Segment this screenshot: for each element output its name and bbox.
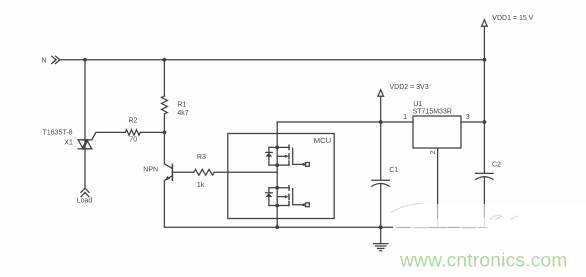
node junction cell top drain — [275, 146, 279, 150]
node N label — [42, 58, 47, 65]
svg-text:1k: 1k — [197, 182, 205, 189]
node junction cell bottom source — [275, 204, 279, 208]
wire R2 to node — [140, 131, 164, 133]
svg-text:4k7: 4k7 — [177, 110, 188, 117]
mosfet cell bottom: gate port square — [306, 203, 310, 207]
node N connector chevron — [52, 56, 60, 63]
regulator U1 box — [413, 116, 461, 148]
wire R1 bottom lead — [163, 114, 165, 132]
node junction rail/MCU — [275, 225, 279, 229]
mosfet cell bottom: body arrow — [277, 195, 289, 198]
wire U1 pin3 to VDD1 column — [461, 121, 484, 123]
mosfet cell top: body diode — [266, 147, 273, 165]
triac label — [43, 130, 73, 147]
svg-text:ST715M33R: ST715M33R — [413, 109, 452, 116]
wire VDD2 horizontal — [277, 121, 413, 123]
transistor Q1 NPN — [164, 164, 172, 181]
mosfet cell top: channel segments — [288, 145, 290, 165]
mosfet cell bottom: drain/source horizontals — [269, 188, 289, 206]
node junction pin3/VDD1 — [483, 120, 487, 124]
node junction cell top source — [275, 163, 279, 167]
wire collector column — [163, 132, 165, 163]
wire MCU vertical rail — [276, 122, 278, 227]
triac X1 T1635T-8 — [78, 140, 92, 149]
watermark faint rail dashes — [391, 204, 517, 228]
node junction N/R1 — [163, 58, 167, 62]
mosfet cell top: gate input arrow — [300, 163, 304, 166]
NPN label — [143, 166, 158, 173]
capacitor C2 — [476, 173, 494, 227]
resistor R2 — [125, 130, 140, 136]
power VDD2 arrow — [378, 90, 384, 122]
VDD1 label — [492, 15, 533, 22]
wire VDD1 column — [483, 60, 485, 174]
node junction N/triac — [83, 58, 87, 62]
svg-text:1: 1 — [403, 114, 407, 121]
pin 1 label — [403, 114, 407, 121]
mosfet cell top: drain/source horizontals — [269, 147, 289, 165]
node junction R2/R1 — [163, 131, 167, 135]
node junction cell bottom drain — [275, 186, 279, 190]
svg-text:3: 3 — [466, 114, 470, 121]
wire emitter column — [163, 180, 165, 227]
resistor R3 — [194, 169, 214, 175]
C2 label — [492, 162, 501, 169]
svg-text:www.cntronics.com: www.cntronics.com — [399, 251, 568, 272]
power VDD1 arrow — [482, 20, 488, 60]
resistor R1 — [162, 96, 168, 114]
ground — [374, 227, 388, 251]
svg-text:R2: R2 — [129, 118, 138, 125]
capacitor C1 — [372, 122, 390, 227]
MCU label — [314, 136, 331, 145]
svg-text:X1: X1 — [64, 140, 73, 147]
R3 value labels — [197, 154, 206, 189]
wire U1 pin2 column — [437, 148, 439, 227]
wire bottom rail — [164, 226, 484, 228]
wire R3 to MOSFET midpoint — [214, 171, 277, 173]
svg-text:VDD1 = 15 V: VDD1 = 15 V — [492, 15, 533, 22]
mosfet cell bottom: gate — [293, 189, 306, 205]
svg-text:C1: C1 — [389, 167, 398, 174]
svg-text:VDD2 = 3V3: VDD2 = 3V3 — [390, 84, 429, 91]
wire N horizontal rail — [60, 59, 485, 61]
svg-text:2: 2 — [430, 150, 437, 154]
U1 labels — [413, 101, 452, 116]
watermark text www.cntronics.com — [399, 251, 568, 272]
mosfet cell bottom: channel segments — [288, 186, 290, 206]
svg-text:U1: U1 — [413, 101, 422, 108]
node junction N/VDD1 — [483, 58, 487, 62]
svg-text:R3: R3 — [197, 154, 206, 161]
mosfet cell top: gate port square — [306, 163, 310, 167]
svg-text:T1635T-8: T1635T-8 — [43, 130, 73, 137]
node junction rail/ground — [379, 225, 383, 229]
wire triac column — [84, 60, 86, 188]
watermark white blob — [393, 204, 586, 240]
svg-text:70: 70 — [129, 137, 137, 144]
VDD2 label — [390, 84, 429, 91]
R2 value labels — [129, 118, 138, 144]
svg-text:NPN: NPN — [143, 166, 158, 173]
svg-text:C2: C2 — [492, 162, 501, 169]
wire triac gate — [92, 132, 126, 140]
R1 value labels — [177, 102, 188, 118]
wire R1 top lead — [163, 60, 165, 96]
C1 label — [389, 167, 398, 174]
mosfet cell bottom: body diode — [266, 188, 273, 206]
svg-text:Load: Load — [77, 198, 93, 205]
svg-text:MCU: MCU — [314, 136, 331, 145]
wire base lead — [172, 171, 193, 173]
mosfet cell bottom: gate input arrow — [300, 203, 304, 206]
pin 3 label — [466, 114, 470, 121]
mosfet cell top: gate — [293, 148, 306, 164]
node junction VDD2/C1 — [379, 120, 383, 124]
svg-text:R1: R1 — [177, 102, 186, 109]
pin 2 label — [430, 150, 437, 154]
mosfet cell top: body arrow — [277, 155, 289, 158]
svg-text:N: N — [42, 58, 47, 65]
Load label — [77, 198, 93, 205]
Load connector chevron — [81, 188, 89, 197]
MCU box — [228, 134, 334, 219]
